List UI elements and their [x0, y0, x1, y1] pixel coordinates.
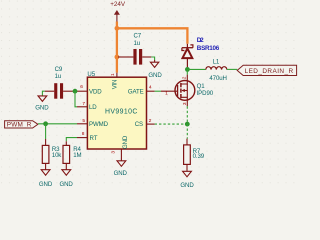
svg-text:1u: 1u — [134, 40, 141, 47]
wire PWM_R to PWMD — [38, 123, 77, 125]
pin 8 RT — [77, 131, 98, 142]
svg-text:5: 5 — [82, 118, 85, 124]
junction PWM node — [43, 121, 48, 126]
junction VDD node — [73, 89, 78, 94]
pin 4 GATE — [128, 85, 155, 96]
wire junction to L1 — [187, 68, 205, 70]
svg-text:D2: D2 — [197, 37, 204, 44]
svg-text:LED_DRAIN_R: LED_DRAIN_R — [245, 68, 294, 75]
resistor R4 — [63, 141, 82, 169]
svg-text:LD: LD — [89, 104, 97, 111]
pin 7 LD — [77, 101, 97, 111]
capacitor C9 — [45, 66, 73, 99]
wire L1 to label — [227, 68, 237, 70]
svg-text:GND: GND — [39, 181, 53, 188]
ground (below R3) — [39, 170, 53, 188]
svg-text:IPD90: IPD90 — [197, 90, 214, 97]
svg-text:HV9910C: HV9910C — [105, 108, 137, 115]
svg-text:GND: GND — [59, 181, 73, 188]
svg-text:VDD: VDD — [89, 88, 102, 95]
ground (below R4) — [59, 170, 73, 188]
svg-text:10k: 10k — [52, 152, 62, 159]
svg-text:RT: RT — [90, 135, 98, 142]
wire +24V down to VIN — [116, 28, 118, 72]
svg-text:PWMD: PWMD — [89, 121, 109, 128]
junction CS node — [185, 122, 190, 127]
svg-text:3: 3 — [111, 151, 117, 154]
svg-text:GND: GND — [114, 170, 128, 177]
ground (below R7) — [180, 171, 194, 189]
wire C9 to VDD — [73, 90, 77, 92]
svg-text:U5: U5 — [87, 71, 95, 78]
capacitor C7 — [118, 32, 151, 64]
inductor L1 470uH — [206, 58, 227, 81]
wire +24V vertical stem — [116, 22, 118, 29]
svg-text:1: 1 — [165, 90, 168, 96]
svg-text:6: 6 — [80, 84, 83, 90]
ground (left of C9) — [35, 96, 49, 112]
svg-text:1u: 1u — [55, 73, 62, 80]
svg-text:L1: L1 — [213, 58, 220, 65]
svg-text:BSR106: BSR106 — [197, 45, 220, 52]
svg-text:1M: 1M — [73, 152, 81, 159]
hierarchical label LED_DRAIN_R — [237, 65, 296, 75]
power +24V — [110, 1, 126, 22]
svg-text:+24V: +24V — [110, 1, 126, 8]
svg-text:GND: GND — [180, 182, 194, 189]
transistor Q1 IPD90 — [161, 75, 214, 107]
pin 1 VIN (top) — [110, 73, 118, 90]
svg-text:1: 1 — [110, 73, 116, 76]
svg-text:3: 3 — [182, 102, 188, 105]
wire drain to junction — [186, 69, 188, 74]
pin 6 VDD — [77, 84, 103, 95]
wire source dashed — [186, 106, 188, 124]
junction at +24V branch — [115, 26, 120, 31]
svg-text:7: 7 — [82, 101, 85, 107]
svg-text:CS: CS — [135, 121, 143, 128]
IC U5 HV9910C body — [87, 71, 146, 149]
svg-text:470uH: 470uH — [209, 75, 226, 82]
ground (right of C7) — [148, 60, 162, 79]
wire VDD to LD — [75, 91, 77, 107]
wire RT to R4 — [66, 138, 77, 142]
svg-text:GND: GND — [122, 135, 129, 149]
junction at C7 branch — [115, 55, 120, 60]
resistor R3 — [42, 139, 62, 170]
ground (below U5) — [114, 161, 128, 177]
wire C9 to GND — [42, 91, 44, 96]
pin 5 PWMD — [77, 118, 109, 128]
junction node LED drain — [185, 67, 190, 72]
wire junction to R3 — [45, 124, 47, 139]
resistor R7 — [184, 139, 205, 171]
svg-text:C7: C7 — [134, 32, 142, 39]
svg-text:GATE: GATE — [128, 88, 144, 95]
wire +24V horizontal top and down to D2 — [117, 28, 187, 44]
svg-text:VIN: VIN — [111, 80, 118, 90]
diode D2 BSR106 (Schottky) — [182, 37, 220, 67]
hierarchical label PWM_R — [5, 121, 38, 129]
svg-text:PWM_R: PWM_R — [7, 122, 32, 129]
pin 2 CS — [135, 118, 155, 128]
svg-text:8: 8 — [82, 131, 85, 137]
svg-text:GND: GND — [35, 105, 49, 112]
svg-text:2: 2 — [149, 118, 152, 124]
svg-text:GND: GND — [148, 72, 162, 79]
wire junction to R7 dashed — [186, 124, 188, 139]
svg-text:2: 2 — [181, 76, 187, 79]
wire CS dashed — [155, 123, 188, 125]
svg-text:4: 4 — [149, 85, 152, 91]
wire C7 to GND — [151, 57, 154, 60]
svg-text:0.39: 0.39 — [193, 153, 205, 160]
wire GATE to Q1 gate — [155, 90, 161, 92]
pin 3 GND (bottom) — [111, 135, 130, 161]
